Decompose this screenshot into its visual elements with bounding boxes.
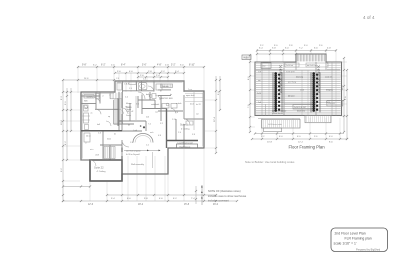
svg-text:shelf: shelf	[95, 155, 99, 157]
svg-text:2'-8: 2'-8	[126, 84, 129, 86]
svg-text:dn 2R: dn 2R	[196, 104, 201, 106]
svg-text:2x6: 2x6	[146, 117, 149, 119]
svg-text:4' ceiling: 4' ceiling	[181, 128, 190, 130]
svg-text:1'-8: 1'-8	[116, 78, 119, 80]
svg-text:12'-6: 12'-6	[88, 204, 94, 206]
svg-text:WBY: WBY	[243, 56, 250, 60]
svg-text:dn: dn	[128, 125, 130, 127]
svg-text:2x10: 2x10	[257, 93, 261, 95]
svg-text:2'-6: 2'-6	[98, 133, 101, 135]
svg-text:arch: arch	[150, 132, 154, 134]
svg-text:7'-2: 7'-2	[148, 124, 151, 126]
svg-text:4x10 beam under: 4x10 beam under	[268, 124, 282, 126]
svg-text:6'-8: 6'-8	[158, 135, 161, 137]
svg-text:blocking: blocking	[296, 77, 303, 79]
svg-text:Note to Builder: Use local bui: Note to Builder: Use local building code…	[245, 160, 295, 164]
svg-text:2x10: 2x10	[326, 102, 330, 104]
svg-text:2x10 @16: 2x10 @16	[286, 72, 295, 74]
svg-text:2x10 FLR JST: 2x10 FLR JST	[294, 107, 307, 109]
svg-text:Floor Framing Plan: Floor Framing Plan	[289, 144, 326, 149]
svg-text:4' Ceiling: 4' Ceiling	[97, 171, 107, 173]
svg-text:van: van	[155, 112, 158, 114]
svg-text:suite bath: suite bath	[151, 103, 159, 106]
svg-text:deck: deck	[190, 104, 194, 106]
svg-text:joist hang: joist hang	[287, 81, 296, 84]
svg-text:2x8: 2x8	[258, 72, 261, 74]
svg-text:stair: stair	[262, 65, 266, 68]
svg-text:3'-0: 3'-0	[136, 104, 139, 106]
svg-text:5'-6": 5'-6"	[142, 65, 147, 67]
svg-text:glulam beam: glulam beam	[272, 113, 283, 115]
svg-text:2x8: 2x8	[258, 102, 261, 104]
svg-text:5'-2": 5'-2"	[171, 65, 176, 67]
svg-text:6'-2": 6'-2"	[101, 65, 106, 67]
svg-text:Prepared by BigShed: Prepared by BigShed	[356, 247, 381, 251]
svg-text:46'-0: 46'-0	[213, 204, 219, 206]
svg-text:3'-6: 3'-6	[129, 88, 132, 90]
svg-text:rim: rim	[258, 79, 261, 82]
svg-text:4t 30 in Drywall: 4t 30 in Drywall	[126, 153, 140, 156]
svg-text:Dress: Dress	[126, 114, 131, 117]
svg-text:includes uses to show real hou: includes uses to show real house	[208, 194, 247, 198]
svg-text:2'-10: 2'-10	[172, 119, 176, 121]
svg-text:open deck: open deck	[186, 95, 195, 97]
svg-text:linen: linen	[107, 139, 111, 141]
svg-text:NOTE OF (illustrative notes): NOTE OF (illustrative notes)	[208, 189, 241, 193]
svg-text:Master: Master	[126, 106, 132, 109]
svg-text:dn: dn	[114, 134, 116, 136]
svg-text:bath: bath	[85, 106, 89, 109]
svg-text:dbl joist: dbl joist	[288, 95, 295, 98]
svg-text:m.bath: m.bath	[176, 102, 182, 105]
svg-text:22'-4: 22'-4	[214, 116, 216, 122]
svg-text:5'-4: 5'-4	[175, 112, 178, 114]
svg-text:4'-8": 4'-8"	[157, 65, 162, 67]
svg-text:Master: Master	[126, 102, 132, 105]
svg-text:bridging: bridging	[326, 89, 333, 92]
svg-text:4 of 4: 4 of 4	[363, 15, 375, 20]
svg-text:Loft: Loft	[134, 129, 138, 132]
svg-text:Roof Garage: Roof Garage	[180, 145, 191, 148]
svg-text:3'-2: 3'-2	[160, 123, 163, 125]
svg-text:dbl 2x10 hdr: dbl 2x10 hdr	[307, 65, 317, 67]
svg-text:laundry: laundry	[87, 95, 93, 98]
svg-text:8'-10": 8'-10"	[189, 65, 195, 67]
svg-text:FLR Framing plan: FLR Framing plan	[345, 237, 372, 241]
svg-text:8'-4": 8'-4"	[121, 65, 126, 67]
svg-text:2x10: 2x10	[300, 90, 304, 92]
svg-text:3'-8: 3'-8	[192, 134, 195, 136]
svg-text:2'-2: 2'-2	[146, 145, 149, 147]
svg-text:up: up	[108, 116, 110, 118]
svg-text:lin: lin	[160, 91, 162, 93]
svg-text:MASTER BED: MASTER BED	[160, 97, 174, 100]
svg-text:w.i.c.: w.i.c.	[90, 149, 94, 151]
svg-text:2x10 rim: 2x10 rim	[325, 76, 333, 79]
svg-text:beam line: beam line	[297, 111, 305, 113]
svg-text:W/D: W/D	[84, 101, 88, 103]
svg-text:cl2: cl2	[131, 111, 133, 113]
svg-text:10'-6: 10'-6	[61, 119, 63, 125]
svg-text:wc: wc	[91, 113, 93, 115]
svg-text:24t 9/16 Drywall: 24t 9/16 Drywall	[126, 149, 141, 152]
svg-text:15'-8: 15'-8	[184, 204, 190, 206]
svg-text:Suite 22: Suite 22	[94, 166, 104, 170]
svg-text:2-car: 2-car	[188, 89, 192, 91]
svg-text:2x10 FLR JOISTS @16 OC: 2x10 FLR JOISTS @16 OC	[319, 64, 321, 93]
svg-text:dn: dn	[170, 94, 172, 96]
svg-text:1'-6: 1'-6	[130, 142, 133, 144]
svg-text:9'-8": 9'-8"	[82, 65, 87, 67]
svg-text:2'-0: 2'-0	[178, 132, 181, 134]
svg-text:includes covenant: includes covenant	[208, 198, 229, 202]
svg-text:10'-8: 10'-8	[267, 142, 273, 144]
svg-text:Garden: Garden	[162, 86, 169, 88]
svg-text:2x10 FLR JOISTS @16 OC: 2x10 FLR JOISTS @16 OC	[280, 64, 282, 93]
svg-text:2x10 hdr: 2x10 hdr	[286, 65, 293, 67]
svg-text:2'-4: 2'-4	[125, 97, 128, 99]
svg-text:Wall assembly: Wall assembly	[131, 164, 144, 166]
svg-text:2nd Floor Level Plan: 2nd Floor Level Plan	[335, 232, 366, 236]
svg-text:scale 1/16" = 1': scale 1/16" = 1'	[334, 242, 357, 246]
svg-text:5'-0: 5'-0	[143, 79, 146, 81]
svg-text:Load Bearing wall: Load Bearing wall	[178, 141, 194, 144]
svg-text:18'-2: 18'-2	[138, 204, 144, 206]
